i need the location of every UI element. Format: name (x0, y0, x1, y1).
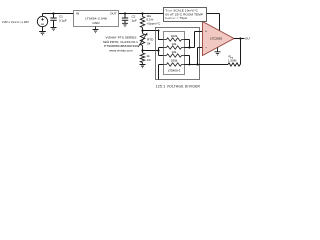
capacitor C1 (53, 14, 55, 18)
wire -IN drop (198, 48, 203, 65)
node F junction (157, 49, 159, 51)
node C junction (R1 top) (141, 12, 143, 14)
wire rows3-4 tie (185, 56, 190, 65)
svg-text:5k: 5k (147, 41, 151, 45)
node D junction (141, 29, 143, 31)
callout box 125:1 divider (156, 28, 200, 80)
svg-text:IN: IN (76, 12, 79, 16)
resistor network U2 LT5400-3 (164, 32, 185, 75)
wire output (234, 38, 245, 40)
node I junction (196, 63, 198, 65)
resistor RD 100k (164, 63, 185, 66)
resistor RA 100k (164, 38, 185, 41)
node A junction (52, 12, 54, 14)
capacitor C2 (122, 14, 128, 27)
svg-text:OUT: OUT (245, 37, 250, 41)
svg-text:−: − (205, 46, 207, 50)
node J junction (239, 37, 241, 39)
ground (RTD chain) (140, 65, 146, 68)
ground (U1 GND pin) (93, 27, 99, 33)
annotation box (164, 8, 207, 22)
svg-text:+: + (205, 30, 207, 34)
node G junction (188, 46, 190, 48)
wire rows1-2 tie (185, 40, 190, 48)
svg-text:1µF: 1µF (132, 18, 137, 22)
node E junction (141, 49, 143, 51)
svg-text:LT6654-2.048: LT6654-2.048 (85, 16, 107, 20)
resistor R1 11k (140, 14, 144, 31)
svg-text:LT5400-3: LT5400-3 (168, 69, 181, 73)
wire row4 feedback node (185, 64, 229, 66)
svg-text:1%: 1% (147, 58, 152, 62)
svg-text:OUT: OUT (110, 12, 117, 16)
ground (C1) (51, 28, 57, 31)
wire V+ drop to op amp (219, 14, 221, 31)
svg-text:LTC2063: LTC2063 (210, 37, 222, 41)
voltage reference U1 LT6654-2.048 (74, 11, 119, 27)
wire row4 to ground (159, 65, 167, 80)
ground (op amp V-) (215, 48, 221, 56)
svg-text:10k: 10k (172, 42, 177, 46)
op-amp U3 LTC2063 (203, 22, 235, 56)
wire node D to divider (143, 30, 159, 32)
svg-text:100k: 100k (171, 59, 178, 63)
left bus wires (159, 31, 167, 80)
resistor R4 1.00M feedback (228, 39, 241, 67)
resistor RC 10k (164, 54, 185, 57)
resistor R3 1k (140, 51, 144, 65)
Vishay PRTD note (103, 36, 138, 53)
node K junction (158, 30, 160, 32)
svg-text:GND: GND (92, 21, 100, 25)
right bus wires (185, 32, 229, 65)
wire top rail (43, 13, 220, 15)
svg-text:www.vishay.com: www.vishay.com (109, 48, 133, 52)
RTD R2 5k (138, 31, 146, 51)
wire node E to divider (143, 50, 159, 52)
svg-text:10k: 10k (172, 50, 177, 54)
svg-text:100k: 100k (171, 34, 178, 38)
svg-text:125:1 VOLTAGE DIVIDER: 125:1 VOLTAGE DIVIDER (156, 85, 201, 89)
wire VREF to row1 (159, 31, 167, 40)
node H junction (189, 64, 191, 66)
ground (source) (39, 32, 46, 35)
voltage source V1 (42, 14, 44, 17)
svg-text:0.1µF: 0.1µF (59, 18, 67, 22)
node B junction (C2) (124, 12, 126, 14)
svg-text:1.00M: 1.00M (228, 58, 237, 62)
svg-text:<5ppm/°C: <5ppm/°C (147, 22, 161, 26)
wire tap to +IN (185, 32, 203, 48)
resistor RB 10k (164, 46, 185, 49)
wire rows2-3 tie (158, 48, 160, 56)
